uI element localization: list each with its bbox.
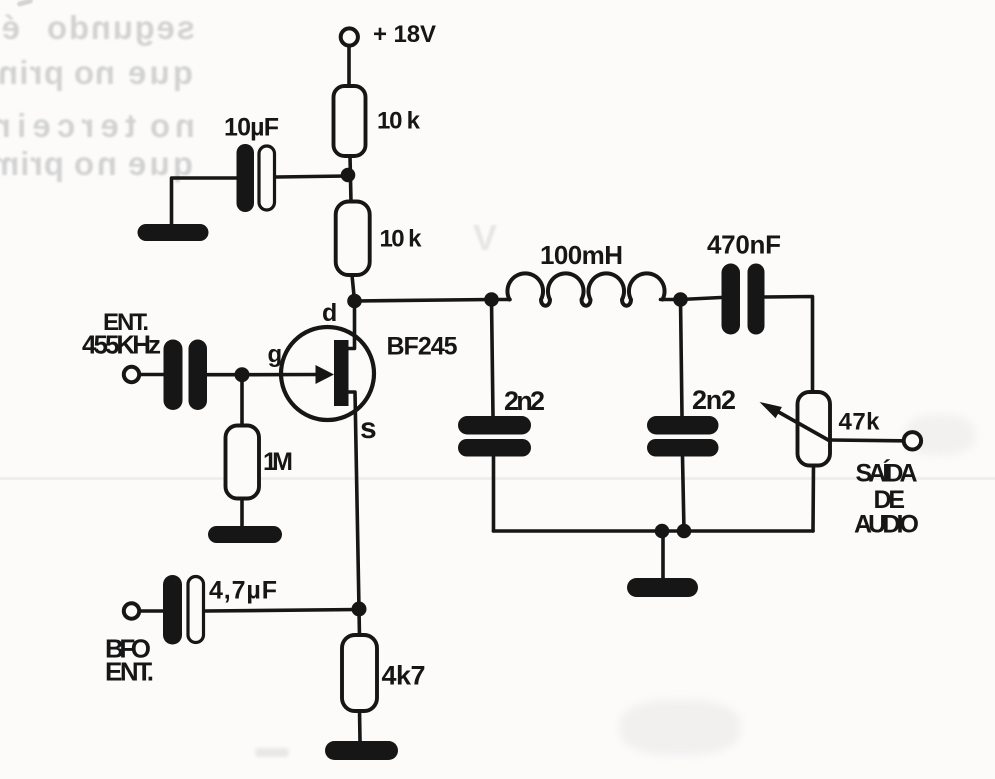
svg-text:4k7: 4k7 [382,661,426,691]
svg-text:g: g [268,341,283,368]
svg-text:BF245: BF245 [387,333,458,361]
svg-text:+ 18V: + 18V [373,21,436,48]
svg-text:10 k: 10 k [377,108,421,135]
svg-text:no: no [74,54,115,91]
svg-text:d: d [322,299,337,327]
svg-text:4,7µF: 4,7µF [209,577,277,605]
svg-text:terceir: terceir [0,107,136,144]
svg-text:10 k: 10 k [380,226,423,253]
svg-text:AUDIO: AUDIO [854,511,919,539]
svg-text:é: é [2,9,20,46]
svg-text:47k: 47k [839,409,881,436]
svg-text:1M: 1M [263,448,293,476]
svg-text:ENT.: ENT. [105,657,154,687]
svg-text:no: no [150,107,195,144]
svg-text:prin: prin [0,54,64,91]
svg-text:SAÍDA: SAÍDA [856,459,918,488]
svg-text:455KHz: 455KHz [82,330,161,360]
svg-text:s: s [360,412,377,445]
svg-text:10µF: 10µF [224,114,279,142]
svg-text:prim: prim [0,145,64,182]
svg-text:que: que [128,54,193,91]
svg-text:no: no [74,145,117,182]
svg-text:470nF: 470nF [707,230,781,260]
svg-text:2n2: 2n2 [692,385,736,415]
svg-text:100mH: 100mH [540,240,623,270]
svg-text:segundo: segundo [47,9,195,46]
svg-text:V: V [473,217,497,258]
svg-text:2n2: 2n2 [504,386,545,416]
